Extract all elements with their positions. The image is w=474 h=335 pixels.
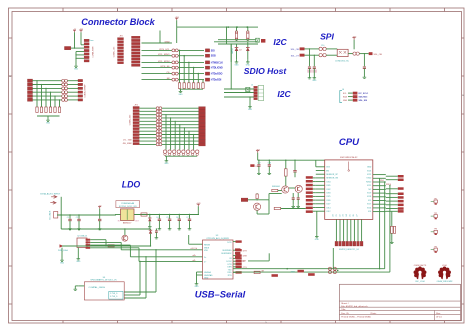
wire U1 in pin — [115, 214, 121, 216]
wire TXD riser right — [384, 182, 386, 269]
net flag sdio — [261, 39, 265, 43]
junction C17 — [156, 228, 157, 229]
svg-text:I2CL_MISO: I2CL_MISO — [158, 54, 170, 56]
svg-text:LDO: LDO — [122, 180, 141, 190]
junction C7 — [189, 214, 190, 215]
jumper link J4-8 — [156, 130, 162, 133]
svg-text:v3.3_lb: v3.3_lb — [191, 248, 198, 250]
wire J2 row 3 to ESD — [142, 55, 172, 57]
svg-text:I2CS_SCL: I2CS_SCL — [159, 49, 171, 51]
ground R19 — [390, 240, 394, 243]
ground C4 — [158, 227, 162, 230]
svg-text:SOT23-5_DCDC_3V3: SOT23-5_DCDC_3V3 — [119, 206, 137, 208]
svg-text:GND/bK: GND/bK — [204, 272, 212, 274]
testpoint TP4 — [431, 246, 438, 252]
svg-text:CONN_PWR: CONN_PWR — [92, 46, 94, 58]
jumper link F1 — [62, 79, 68, 82]
ground C3 — [98, 227, 102, 230]
capacitor C21 — [312, 67, 316, 73]
ground C16 — [296, 204, 300, 207]
svg-text:AMS1117: AMS1117 — [123, 222, 132, 225]
wire D1 stem — [236, 51, 238, 60]
junction rail R10 — [236, 26, 237, 27]
wire top 3V3 rail — [177, 26, 249, 28]
ferrite bead FB1 — [319, 47, 326, 50]
svg-text:+3V3: +3V3 — [196, 203, 200, 205]
wire module right label wires — [386, 176, 398, 211]
wire D2 top — [247, 42, 249, 47]
ground module — [315, 234, 320, 241]
svg-text:GND: GND — [46, 123, 51, 125]
wire F drop 3 — [45, 88, 47, 107]
svg-text:IO5: IO5 — [368, 200, 371, 202]
svg-text:I2CL_MOSI: I2CL_MOSI — [158, 61, 170, 63]
jumper link SJ5 — [172, 72, 178, 75]
wire drop to R array 5 — [197, 74, 199, 83]
wire cap B drop — [313, 55, 315, 66]
capacitor C22 — [363, 67, 366, 68]
junction SPI cap B — [314, 55, 315, 56]
svg-text:IO4: IO4 — [368, 211, 371, 213]
net flag J4-8 — [199, 130, 206, 133]
wire ESD row 4 to flag — [178, 67, 204, 69]
capacitor C12 — [257, 160, 260, 171]
wire R array bottom bus — [180, 88, 204, 90]
port flag PWR_FLAG usb — [58, 244, 68, 258]
svg-text:2-TVS_D: 2-TVS_D — [110, 293, 118, 295]
svg-text:IO25: IO25 — [326, 196, 330, 198]
jumper link F2 — [62, 83, 68, 86]
wire J1 vcc stem A — [74, 32, 76, 48]
resistor R11 pullup — [247, 31, 249, 41]
wire GND row up to rail — [159, 31, 161, 44]
junction C1 — [69, 214, 70, 215]
svg-text:RXD: RXD — [228, 272, 233, 274]
wire rail extension — [249, 26, 258, 28]
junction jumper — [337, 270, 339, 272]
wire D1 top — [236, 44, 238, 47]
port flag EN — [241, 198, 248, 201]
net flag HTDx/SDI — [205, 78, 221, 82]
svg-text:ESP32_DEVKITC_V4: ESP32_DEVKITC_V4 — [339, 249, 359, 251]
junction F col 4 — [50, 92, 51, 93]
svg-text:GND: GND — [312, 80, 317, 82]
svg-text:Conn: Conn — [89, 40, 94, 42]
jumper link J4-6 — [156, 123, 162, 126]
resistor R10 pullup — [235, 31, 237, 41]
svg-text:GND: GND — [74, 69, 79, 71]
connector J4 header — [133, 107, 139, 145]
wire port P2 to link — [33, 84, 62, 86]
module right pin names — [366, 167, 372, 213]
J6 pin names — [343, 93, 348, 102]
jumper link J4-10 — [156, 136, 162, 139]
junction FB3 — [364, 53, 365, 54]
svg-text:SENSOR_VP: SENSOR_VP — [326, 174, 338, 176]
svg-text:IO18: IO18 — [367, 196, 371, 198]
wire regin feed — [189, 243, 203, 245]
junction Q4 — [124, 228, 125, 229]
svg-text:LOGO: LOGO — [442, 265, 448, 267]
wire R18 right — [281, 208, 306, 210]
wire RXD riser right — [389, 186, 391, 272]
svg-text:HTWS/CLK: HTWS/CLK — [211, 62, 223, 64]
wire J4 row 6 to flag — [162, 124, 199, 126]
ground C7 — [188, 227, 192, 230]
wire sdio row3 — [218, 43, 258, 45]
wire port P4 to link — [33, 91, 62, 93]
svg-text:IO19: IO19 — [367, 193, 371, 195]
jumper link J4-3 — [156, 113, 162, 116]
svg-text:22: 22 — [339, 214, 341, 216]
wire CPU 3V3 rail — [258, 159, 325, 161]
wire Q4 stem up — [124, 229, 126, 235]
jumper link SJ6 — [172, 78, 178, 81]
junction rail R11 — [247, 26, 248, 27]
svg-text:SDL/SD3: SDL/SD3 — [359, 97, 369, 99]
net flag SDL_OT — [291, 54, 305, 58]
wire RN2 bottom bus — [37, 115, 60, 117]
net flag J4-5 — [199, 120, 206, 123]
wire sdio row1 — [218, 39, 256, 41]
jumper link F6 — [62, 98, 68, 101]
svg-text:REGIN: REGIN — [204, 244, 211, 246]
wire port P5 to link — [33, 95, 62, 97]
ground C5 — [168, 227, 172, 230]
svg-text:Printed 5/5/bb – Printed 5/5/b: Printed 5/5/bb – Printed 5/5/bb — [341, 316, 371, 319]
wire J1 row 3v3 — [81, 44, 84, 46]
junction rail R pullup — [285, 160, 286, 161]
svg-text:GND: GND — [315, 239, 320, 241]
wire J4 row 5 to flag — [162, 120, 199, 122]
port flag left P2 — [28, 83, 33, 86]
svg-text:DTR: DTR — [228, 264, 233, 266]
wire SPI row1 — [305, 48, 320, 50]
diode D3 led — [148, 215, 151, 225]
U1 internal pin line — [126, 210, 128, 220]
wire J2 row 7 to ESD — [142, 79, 172, 81]
resistor RN1 element 1 — [178, 83, 180, 89]
transistor Q3 — [254, 203, 261, 210]
wire drop to R array 1 — [179, 50, 181, 82]
wire J5 row1 — [224, 88, 254, 90]
net tie box — [256, 38, 260, 42]
transistor Q4 usb power — [122, 235, 128, 241]
resistor RN2 element 4 — [49, 107, 51, 112]
ground R array — [179, 89, 184, 96]
wire esd stub C — [124, 291, 156, 293]
wire usb vbus drop — [105, 240, 107, 246]
svg-text:JTL_TDB: JTL_TDB — [123, 140, 132, 142]
wire J4 row 8 to flag — [162, 130, 199, 132]
svg-text:DTR: DTR — [291, 271, 296, 273]
svg-text:GND: GND — [367, 167, 372, 169]
wire 5V rail — [57, 214, 116, 216]
inductor L1 — [141, 213, 147, 216]
junction rail C13 — [269, 160, 270, 161]
svg-text:DSR: DSR — [228, 267, 233, 269]
svg-text:IO35: IO35 — [326, 185, 330, 187]
resistor RN1 element 2 — [183, 83, 185, 89]
wire J4 drop 4 — [179, 125, 181, 150]
junction J4 drop 6 — [188, 131, 189, 132]
resistor R18 — [274, 207, 280, 209]
junction J5 link — [231, 88, 232, 89]
junction right riser — [379, 268, 380, 269]
junction rail C14 — [294, 160, 295, 161]
svg-text:OSHW_FACTS: OSHW_FACTS — [414, 264, 427, 267]
wire J4 drop 2 — [170, 118, 172, 150]
port flag left P3 — [28, 87, 33, 90]
wire module 3V3 pin to rail — [315, 160, 317, 167]
title block row lines — [339, 301, 460, 321]
U3 left pin names — [204, 244, 213, 279]
testpoint TP3 — [431, 229, 438, 235]
resistor RN2 element 5 — [54, 107, 56, 112]
svg-text:SDL_OT: SDL_OT — [291, 55, 300, 57]
svg-text:IO22: IO22 — [367, 174, 371, 176]
svg-text:GND: GND — [248, 109, 253, 111]
svg-text:IO21: IO21 — [367, 185, 371, 187]
wire J2 row 5 to ESD — [142, 67, 172, 69]
wire esd drop C — [155, 250, 157, 292]
junction C5 — [169, 214, 170, 215]
svg-text:IO27: IO27 — [326, 204, 330, 206]
junction R10 row — [236, 40, 237, 41]
wire J4 row 3 to flag — [162, 114, 199, 116]
svg-text:SP0503BAHTL_5ET1/LO_V5: SP0503BAHTL_5ET1/LO_V5 — [90, 279, 117, 282]
net flag J4-3 — [199, 113, 206, 116]
ground U3 — [195, 282, 200, 289]
ground C6 — [178, 227, 182, 230]
resistor RN1 element 5 — [197, 83, 199, 89]
svg-text:IO23: IO23 — [367, 170, 371, 172]
power symbol +3V3 top rail — [175, 17, 179, 20]
wire module bottom drops — [336, 219, 361, 241]
wire C21 stem — [313, 68, 315, 75]
jumper link F4 — [62, 91, 68, 94]
svg-text:ESP-WROOM-32: ESP-WROOM-32 — [340, 157, 358, 159]
wire J4 row 1 to flag — [162, 107, 199, 109]
svg-text:CONN_STRIP: CONN_STRIP — [84, 84, 86, 98]
jumper link J4-4 — [156, 117, 162, 120]
ferrite bead FB3 — [353, 52, 359, 55]
wire sdio down link — [230, 44, 232, 62]
wire ESD row 6 to flag — [178, 79, 204, 81]
svg-text:I2C: I2C — [273, 37, 287, 47]
svg-text:DCD: DCD — [227, 242, 232, 244]
net flags RXD TXD IO0 — [235, 248, 240, 258]
junction sdio link — [231, 43, 232, 44]
svg-text:3-TVS_D: 3-TVS_D — [110, 296, 118, 298]
wire Q1 collector down — [268, 200, 270, 214]
capacitor C17 vbus — [155, 229, 158, 236]
svg-text:HTDx/SDI: HTDx/SDI — [211, 80, 222, 82]
wire esd stub B — [124, 294, 140, 296]
svg-text:IO32: IO32 — [326, 189, 330, 191]
ic U2 level shifter — [337, 49, 348, 56]
svg-text:SDB: SDB — [211, 56, 216, 58]
wire F drop 5 — [54, 96, 56, 107]
wire J4 row 10 to flag — [162, 137, 199, 139]
wire J4 row 11 to ESD — [139, 140, 156, 142]
wire F drop 4 — [50, 92, 52, 107]
svg-text:RXD0: RXD0 — [386, 184, 391, 186]
net flags J6 — [353, 92, 358, 102]
svg-text:SDIO Host: SDIO Host — [244, 66, 288, 76]
power symbol +5V on rail — [98, 205, 102, 208]
capacitor C2 — [77, 215, 80, 227]
capacitor C7 — [188, 215, 191, 227]
net flag J4-9 — [199, 133, 206, 136]
wire DTR step — [248, 253, 269, 261]
resistor RN2 element 3 — [45, 107, 47, 112]
label DTR net — [291, 270, 304, 274]
wire FB3 to flag — [359, 53, 368, 55]
svg-text:TXD: TXD — [228, 269, 232, 271]
capacitor C1 — [68, 215, 71, 227]
svg-text:J6: J6 — [342, 89, 344, 91]
power symbol +3V3 U2 — [352, 36, 356, 39]
resistor R15 EN pullup — [285, 160, 288, 186]
wire esd drop A — [145, 257, 147, 298]
junction C6 — [179, 214, 180, 215]
regulator U1 outline box — [116, 201, 140, 208]
wire J2 row 6 to ESD — [142, 73, 172, 75]
ic module ESP-WROOM-32 box — [325, 160, 373, 220]
svg-text:IO33: IO33 — [326, 193, 330, 195]
wire drop to R array 6 — [202, 80, 204, 83]
svg-text:GND: GND — [76, 261, 81, 263]
connector J2 header column B — [132, 36, 141, 66]
resistor R13 series — [254, 271, 264, 274]
net flag J4-1 — [199, 107, 206, 110]
svg-text:CONLV/DD_SC: CONLV/DD_SC — [335, 60, 350, 62]
junction F col 1 — [36, 80, 37, 81]
junction F col 5 — [54, 96, 55, 97]
svg-text:23: 23 — [343, 214, 345, 216]
junction id esd — [139, 261, 140, 262]
resistor RN2 element 2 — [40, 107, 42, 112]
svg-text:5V/3A_AC/DC INPUT: 5V/3A_AC/DC INPUT — [40, 193, 61, 196]
svg-text:HTDL/GND: HTDL/GND — [211, 68, 223, 70]
wire TXD stub from U3 — [233, 269, 242, 272]
net flag SDL_OB — [291, 47, 305, 51]
wire J4 row 12 to flag — [162, 143, 199, 145]
wire usb dminus — [130, 256, 202, 258]
wire drop to R array 4 — [193, 68, 195, 83]
svg-text:25: 25 — [350, 214, 352, 216]
svg-text:24: 24 — [346, 214, 348, 216]
ic U4 esd array box — [84, 282, 124, 300]
svg-text:TXD0: TXD0 — [366, 178, 371, 180]
wire J2 row 2 to ESD — [142, 49, 172, 51]
module antenna mark — [348, 162, 350, 172]
wire sdio link down to J5 — [230, 44, 232, 89]
ground C21 — [312, 76, 317, 83]
ground D3 — [148, 225, 152, 228]
power symbol +3V3 CPU — [256, 149, 260, 152]
svg-text:GND: GND — [343, 100, 348, 102]
net flag J4-12 — [199, 143, 206, 146]
wire Q3 down — [256, 210, 258, 214]
jumper link J4-7 — [156, 126, 162, 129]
jumper link J4-1 — [156, 107, 162, 110]
svg-text:SUSPEND: SUSPEND — [222, 250, 232, 252]
diode D1 — [235, 47, 239, 51]
svg-text:D−: D− — [204, 262, 206, 264]
resistor RN2 element 6 — [58, 107, 60, 112]
junction EN — [256, 199, 257, 200]
wire RN3 bottom bus — [165, 155, 197, 157]
net flag HTDL/GND — [205, 66, 223, 70]
wire usb vbus pin — [90, 239, 106, 241]
port flag left P4 — [28, 91, 33, 94]
title block outline — [339, 284, 460, 320]
wire J2 row 1 to ESD — [142, 42, 172, 44]
svg-text:DCD2: DCD2 — [226, 261, 231, 263]
svg-text:GND: GND — [179, 94, 184, 96]
svg-text:File: ESP32_brd_offset.sch: File: ESP32_brd_offset.sch — [341, 305, 368, 308]
power symbol +5V J1 — [73, 29, 77, 32]
svg-text:I2C: I2C — [277, 89, 291, 99]
svg-text:COMPAL_GNSS: COMPAL_GNSS — [89, 286, 106, 289]
power symbol +3V3 LDO out — [196, 203, 200, 206]
module right net label boxes — [398, 175, 404, 213]
capacitor C13 — [268, 160, 271, 171]
ground X2 — [76, 257, 81, 264]
wire usb id step — [90, 248, 139, 262]
svg-text:J5: J5 — [251, 85, 253, 87]
svg-text:DC-JACK: DC-JACK — [49, 210, 52, 219]
wire ESD row 2 to flag — [178, 55, 204, 57]
junction top rail B — [236, 26, 238, 28]
wire usb dplus — [121, 249, 202, 251]
dc jack pin 1 arrow — [51, 195, 57, 198]
wire esd stub A — [124, 297, 146, 299]
junction J1 5v — [74, 47, 75, 48]
wire J1 gnd collect — [75, 52, 84, 65]
junction C2 — [78, 214, 79, 215]
wire F drop 1 — [36, 81, 38, 107]
wire F drop 6 — [59, 100, 61, 107]
svg-text:SDL_OB: SDL_OB — [291, 49, 300, 51]
svg-text:X2 USB_B: X2 USB_B — [77, 236, 87, 238]
svg-text:DTR: DTR — [242, 261, 247, 263]
junction F col 6 — [59, 99, 60, 100]
jumper link SJ3 — [172, 61, 178, 64]
connector J5 header — [254, 86, 258, 99]
connector J2 header column A — [118, 38, 124, 64]
resistor RN1 element 3 — [188, 83, 190, 89]
wire regin riser — [188, 235, 190, 244]
net flag HTWS/CLK — [205, 61, 223, 65]
junction rail C12 — [258, 160, 259, 161]
svg-text:JP2: JP2 — [119, 36, 122, 38]
wire link F6 to header — [68, 99, 79, 101]
svg-text:+3V3: +3V3 — [79, 29, 83, 31]
junction sdio left — [226, 26, 227, 27]
wire J4 row 11 to flag — [162, 140, 199, 142]
wire link F1 to header — [68, 80, 79, 82]
wire ESD row 1 to flag — [178, 49, 204, 51]
wire D2 stem — [247, 51, 249, 60]
wire U2 out — [348, 53, 353, 55]
wire 5V bus extension — [112, 228, 151, 230]
wire U2 vcc stem — [353, 40, 355, 50]
svg-text:GND: GND — [60, 263, 65, 265]
module right pin stubs — [373, 175, 386, 212]
